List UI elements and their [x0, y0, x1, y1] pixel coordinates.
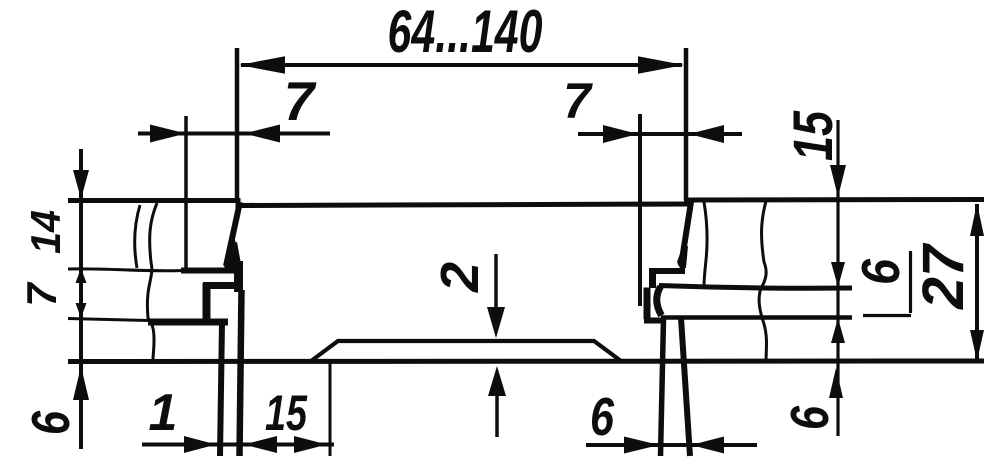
svg-text:6: 6	[851, 258, 911, 285]
svg-text:14: 14	[22, 210, 69, 254]
svg-text:7: 7	[18, 282, 65, 307]
svg-text:6: 6	[780, 405, 840, 430]
svg-text:6: 6	[590, 387, 615, 447]
svg-text:27: 27	[911, 242, 976, 310]
svg-text:64...140: 64...140	[388, 0, 543, 65]
svg-text:1: 1	[149, 384, 178, 442]
svg-text:15: 15	[265, 385, 308, 441]
svg-text:2: 2	[430, 262, 490, 293]
svg-text:6: 6	[21, 410, 81, 435]
svg-text:7: 7	[563, 73, 593, 129]
svg-text:7: 7	[284, 70, 317, 132]
svg-text:15: 15	[781, 110, 844, 161]
